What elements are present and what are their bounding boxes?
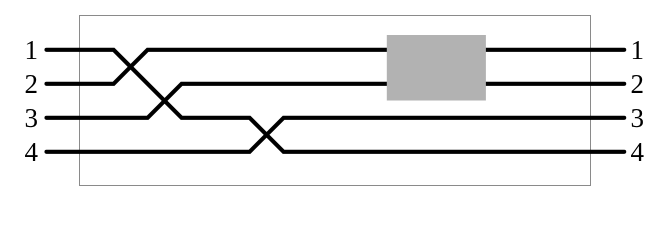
wire strand 1 (in 1, crosses down to out 4) bbox=[47, 50, 625, 152]
svg-text:2: 2 bbox=[24, 69, 38, 99]
svg-text:3: 3 bbox=[24, 103, 38, 133]
wire strand 4 (in 4, crosses up to out 3) bbox=[47, 118, 625, 152]
svg-text:3: 3 bbox=[631, 103, 645, 133]
svg-text:1: 1 bbox=[24, 35, 38, 65]
wire strand 3 (in 3, crosses up to out 2) bbox=[47, 84, 625, 118]
svg-text:4: 4 bbox=[24, 137, 38, 167]
svg-text:4: 4 bbox=[631, 137, 645, 167]
frame border bbox=[80, 16, 591, 186]
svg-text:1: 1 bbox=[631, 35, 645, 65]
svg-text:2: 2 bbox=[631, 69, 645, 99]
wire strand 2 (in 2, crosses up to out 1) bbox=[47, 50, 625, 84]
gray block covering wires 1 and 2 bbox=[387, 35, 486, 101]
